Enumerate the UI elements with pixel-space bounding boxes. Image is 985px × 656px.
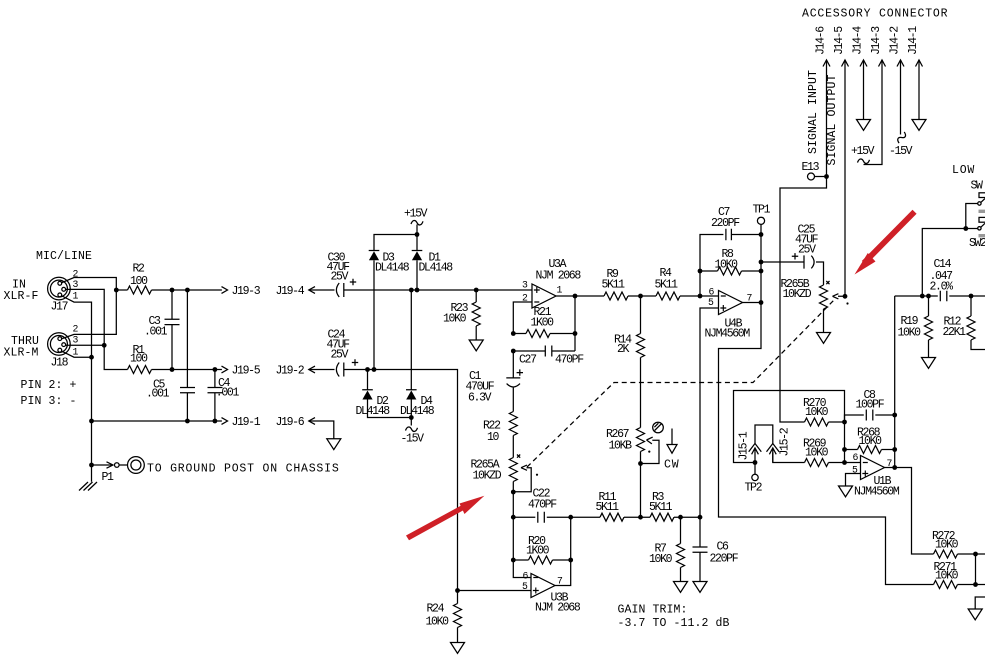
-15V tilde J14-2 xyxy=(896,131,907,143)
svg-text:J17: J17 xyxy=(51,301,68,314)
ground U1B pin5 xyxy=(839,486,853,497)
junction R12 top xyxy=(969,294,974,299)
svg-text:25V: 25V xyxy=(331,349,349,362)
junction R268 right xyxy=(892,447,897,452)
arrowhead J14-3 xyxy=(879,60,886,67)
test point TP2 xyxy=(754,463,756,475)
svg-text:SIGNAL INPUT: SIGNAL INPUT xyxy=(807,70,820,154)
wire C8/R268 node vertical xyxy=(894,296,896,468)
svg-text:10KZD: 10KZD xyxy=(473,470,502,483)
junction D4 top on J19-4 row xyxy=(409,288,414,293)
svg-text:10K0: 10K0 xyxy=(935,570,959,583)
junction U4B output xyxy=(759,300,764,305)
svg-text:470PF: 470PF xyxy=(528,499,557,512)
svg-text:J14-6: J14-6 xyxy=(815,26,828,55)
svg-text:100PF: 100PF xyxy=(856,399,885,412)
svg-text:5K11: 5K11 xyxy=(596,501,620,514)
wire U3B pin5 row xyxy=(458,590,532,592)
arrowhead J14-5 xyxy=(842,60,849,67)
junction J18 pin1 xyxy=(89,355,94,360)
svg-text:+15V: +15V xyxy=(404,208,428,221)
svg-text:J19-1: J19-1 xyxy=(232,416,261,429)
junction R270 right xyxy=(842,420,847,425)
svg-text:J19-6: J19-6 xyxy=(276,416,305,429)
diode D3 xyxy=(369,250,380,252)
connector J18 XLR male xyxy=(48,333,71,356)
svg-text:TO GROUND POST ON CHASSIS: TO GROUND POST ON CHASSIS xyxy=(147,463,340,476)
off-page arrow J14-4 xyxy=(857,120,871,131)
arrowhead J19-5 xyxy=(222,366,228,373)
svg-text:J15-1: J15-1 xyxy=(738,431,751,460)
svg-text:10K0: 10K0 xyxy=(426,616,450,629)
wire U4B pin5 to R3/R7 node xyxy=(700,308,719,517)
junction R265A bottom xyxy=(511,490,516,495)
junction R267 bottom xyxy=(638,461,643,466)
junction R4 right / U4B pin6 node xyxy=(698,294,703,299)
ground R265B xyxy=(817,333,831,344)
wire U3B output loop xyxy=(555,517,571,585)
svg-text:2K: 2K xyxy=(617,343,630,356)
svg-text:6.3V: 6.3V xyxy=(468,392,492,405)
off-page arrow J14-1 xyxy=(912,120,926,131)
ground R7 xyxy=(674,582,688,593)
svg-text:.001: .001 xyxy=(144,326,168,339)
svg-text:LOW: LOW xyxy=(952,164,975,177)
wire J14-2 to -15V xyxy=(900,60,902,135)
arrowhead J14-2 xyxy=(897,60,904,67)
chassis ground xyxy=(79,482,97,491)
svg-text:DL4148: DL4148 xyxy=(400,405,435,418)
junction C3 top xyxy=(170,288,175,293)
svg-text:XLR-M: XLR-M xyxy=(4,347,39,360)
wire U4B output feedback vertical and rail to R271 xyxy=(719,235,934,585)
svg-text:-15V: -15V xyxy=(401,433,425,446)
junction R268 left xyxy=(842,447,847,452)
junction R271 right xyxy=(973,582,978,587)
svg-text:10K0: 10K0 xyxy=(649,553,673,566)
wire R272-R271 tie xyxy=(975,554,977,585)
wire U1B feedback box to J15-1 xyxy=(734,391,845,463)
svg-text:10K0: 10K0 xyxy=(898,327,922,340)
svg-text:220PF: 220PF xyxy=(710,553,739,566)
junction P1 row xyxy=(89,463,94,468)
diode D1 xyxy=(412,250,423,252)
arrowhead J19-3 xyxy=(222,287,228,294)
svg-text:2.0%: 2.0% xyxy=(930,281,954,294)
R265B wiper to signal output xyxy=(833,294,846,299)
svg-text:J14-1: J14-1 xyxy=(907,26,920,55)
wire U1B output xyxy=(885,468,934,555)
junction R9/R4/R14 xyxy=(638,294,643,299)
junction C4 top xyxy=(213,367,218,372)
wire J14-6 signal input run down-left-down to R270 xyxy=(780,60,827,422)
svg-text:GAIN TRIM:: GAIN TRIM: xyxy=(618,604,688,617)
junction C22 right xyxy=(568,515,573,520)
wire C14 row xyxy=(895,291,985,301)
svg-text:5K11: 5K11 xyxy=(655,279,679,292)
junction C27 left xyxy=(511,349,516,354)
arrowhead J19-4 xyxy=(309,287,315,294)
arrowhead J14-4 xyxy=(860,60,867,67)
svg-text:XLR-F: XLR-F xyxy=(4,290,39,303)
op-amp U1B xyxy=(861,456,885,480)
wire J18 pin1 xyxy=(61,351,92,357)
ground J19-6 xyxy=(327,439,341,450)
junction D1 bottom on J19-4 row xyxy=(415,288,420,293)
wire J17 pin3 down to J18 pin3 and R1 xyxy=(66,289,128,369)
wire J14-1 stub xyxy=(918,60,920,120)
ground R23 xyxy=(469,340,483,351)
junction R23 top xyxy=(474,288,479,293)
junction U1B output xyxy=(892,465,897,470)
junction switch wire xyxy=(963,226,968,231)
svg-text:P1: P1 xyxy=(102,471,115,484)
junction -15V node xyxy=(409,415,414,420)
arrowhead J14-6 xyxy=(823,60,830,67)
op-amp U3B xyxy=(531,574,555,598)
wire J19-1 row xyxy=(92,420,222,422)
wire to output ground xyxy=(975,597,985,609)
diode D2 xyxy=(362,370,373,390)
wire U3A output xyxy=(556,296,575,351)
junction R21 right xyxy=(573,331,578,336)
wire U4B inverting node vertical xyxy=(700,235,723,297)
arrowhead J19-1 xyxy=(222,418,228,425)
wire R8/C7 node to C25 xyxy=(761,261,804,263)
junction E13 on signal input line xyxy=(824,174,829,179)
svg-text:C27: C27 xyxy=(519,354,536,367)
junction R21 left xyxy=(511,331,516,336)
arrowhead J14-1 xyxy=(916,60,923,67)
junction C22 left xyxy=(511,515,516,520)
svg-text:10K0: 10K0 xyxy=(805,447,829,460)
svg-text:NJM 2068: NJM 2068 xyxy=(536,270,582,283)
junction C3 bottom xyxy=(170,367,175,372)
screwdriver adjust symbol xyxy=(653,422,664,433)
junction R8 left xyxy=(698,269,703,274)
svg-text:NJM4560M: NJM4560M xyxy=(854,486,900,499)
svg-text:5K11: 5K11 xyxy=(602,279,626,292)
svg-text:TP1: TP1 xyxy=(753,204,771,217)
junction U3A output xyxy=(573,294,578,299)
junction R19 top xyxy=(926,294,931,299)
R265B CW end mark xyxy=(826,281,829,284)
svg-text:10: 10 xyxy=(487,431,500,444)
svg-text:PIN 3: -: PIN 3: - xyxy=(21,395,77,408)
svg-text:J19-5: J19-5 xyxy=(232,365,261,378)
junction R7 top xyxy=(678,515,683,520)
junction R11/R3/R267 xyxy=(638,515,643,520)
wire J18 pin2 up to R2 junction xyxy=(61,290,116,339)
svg-text:J14-3: J14-3 xyxy=(870,26,883,55)
svg-text:10KB: 10KB xyxy=(609,440,633,453)
-15V tilde xyxy=(406,427,418,431)
wire J19-6 to ground xyxy=(309,421,334,439)
ground R24 xyxy=(451,643,465,654)
svg-text:10K0: 10K0 xyxy=(805,406,829,419)
junction C4 bottom xyxy=(213,419,218,424)
junction C8 right xyxy=(892,413,897,418)
ground output xyxy=(968,609,982,620)
junction U1B pin6 node xyxy=(842,460,847,465)
svg-text:MIC/LINE: MIC/LINE xyxy=(36,250,92,263)
junction R20 right xyxy=(568,558,573,563)
wire J18 pin3 xyxy=(66,344,105,346)
svg-text:ACCESSORY CONNECTOR: ACCESSORY CONNECTOR xyxy=(802,8,948,21)
svg-text:5K11: 5K11 xyxy=(649,501,673,514)
junction R20 left xyxy=(511,558,516,563)
switch SW fragment xyxy=(922,229,977,297)
junction C5 bottom xyxy=(185,419,190,424)
svg-text:DL4148: DL4148 xyxy=(375,262,410,275)
svg-text:J19-2: J19-2 xyxy=(276,365,305,378)
svg-text:PIN 2: +: PIN 2: + xyxy=(21,379,77,392)
svg-text:SW2: SW2 xyxy=(969,237,985,250)
svg-text:25V: 25V xyxy=(331,271,349,284)
svg-text:+15V: +15V xyxy=(851,145,875,158)
svg-text:470PF: 470PF xyxy=(555,354,584,367)
dashed gang line R265A-R267-R265B xyxy=(527,299,835,467)
wire J14-3 to +15V xyxy=(864,60,883,165)
arrowhead J19-6 xyxy=(309,418,315,425)
wire U4B output xyxy=(743,302,762,304)
svg-text:J15-2: J15-2 xyxy=(779,427,792,456)
svg-text:TP2: TP2 xyxy=(745,482,763,495)
svg-text:100: 100 xyxy=(130,353,148,366)
svg-text:J19-3: J19-3 xyxy=(232,285,261,298)
svg-text:CW: CW xyxy=(664,459,679,472)
junction ground row at main vertical xyxy=(89,419,94,424)
junction C6 / U4B pin5 node xyxy=(698,515,703,520)
svg-text:R2: R2 xyxy=(133,263,146,276)
svg-text:NJM4560M: NJM4560M xyxy=(705,328,751,341)
R265A wiper xyxy=(513,465,531,492)
junction switch drop xyxy=(920,294,925,299)
svg-text:10K0: 10K0 xyxy=(443,313,467,326)
svg-text:J19-4: J19-4 xyxy=(276,285,305,298)
svg-text:DL4148: DL4148 xyxy=(356,405,391,418)
R267 wiper xyxy=(641,437,660,463)
junction C7 right xyxy=(759,232,764,237)
wire U3B feedback left vertical xyxy=(513,517,531,577)
junction wire to R265B xyxy=(759,260,764,265)
ground C6 xyxy=(693,582,707,593)
+15V tilde J14-3 xyxy=(858,159,870,163)
junction D3 bottom on J19-2 row xyxy=(372,367,377,372)
wire J17 pin2 to R2 junction xyxy=(61,278,116,291)
svg-text:J14-5: J14-5 xyxy=(833,26,846,55)
red annotation arrow 2 xyxy=(855,210,917,275)
svg-text:DL4148: DL4148 xyxy=(419,262,454,275)
wire U3A pin2 xyxy=(513,302,532,334)
svg-text:J18: J18 xyxy=(51,357,69,370)
arrowhead J19-2 xyxy=(309,366,315,373)
wire +15V rail xyxy=(374,225,417,251)
junction U3B pin5 / R24 xyxy=(455,588,460,593)
svg-text:22K1: 22K1 xyxy=(943,326,967,339)
svg-text:R24: R24 xyxy=(427,603,445,616)
op-amp U4B xyxy=(719,291,743,315)
terminal P1 eyelet xyxy=(115,463,120,468)
junction J18 pin3 xyxy=(102,343,107,348)
ground R19 xyxy=(922,358,936,369)
diode D4 xyxy=(406,290,417,390)
svg-text:J14-2: J14-2 xyxy=(889,26,902,55)
svg-text:SW: SW xyxy=(971,180,984,193)
junction +15V xyxy=(415,232,420,237)
junction J15-1 xyxy=(753,460,758,465)
junction R2 input xyxy=(114,288,119,293)
wire P1 arrow xyxy=(92,464,113,466)
wire J14-4 stub xyxy=(863,60,865,120)
junction C5 top xyxy=(185,288,190,293)
junction R8 right xyxy=(759,269,764,274)
wire J19-2 row to U3B + input xyxy=(344,370,458,591)
svg-text:J14-4: J14-4 xyxy=(852,26,865,55)
wire R270 node down to U1B pin6 xyxy=(844,422,846,463)
svg-text:220PF: 220PF xyxy=(711,217,740,230)
svg-text:10KZD: 10KZD xyxy=(783,288,812,301)
svg-text:25V: 25V xyxy=(798,244,816,257)
CW arrow xyxy=(671,429,673,445)
junction R265B wiper / J14-5 xyxy=(843,294,848,299)
op-amp U3A xyxy=(532,284,556,308)
red annotation arrow 1 xyxy=(406,496,484,540)
+15V tilde xyxy=(411,220,423,224)
R265A CW end mark xyxy=(517,455,520,458)
svg-text:E13: E13 xyxy=(802,161,820,174)
wire J17 pin1 ground run xyxy=(61,296,92,482)
junction R272 right xyxy=(973,552,978,557)
svg-text:10K0: 10K0 xyxy=(935,539,959,552)
svg-text:-3.7 TO -11.2 dB: -3.7 TO -11.2 dB xyxy=(618,617,730,630)
svg-text:10K0: 10K0 xyxy=(859,435,883,448)
svg-text:.001: .001 xyxy=(146,388,170,401)
wire U1B pin5 to ground xyxy=(846,474,861,487)
svg-text:-15V: -15V xyxy=(889,145,913,158)
junction D2 top on J19-2 row xyxy=(365,367,370,372)
svg-text:NJM 2068: NJM 2068 xyxy=(535,602,581,615)
connector J17 XLR female xyxy=(48,277,71,300)
wire J14-5 signal output run xyxy=(844,60,846,296)
svg-text:SIGNAL OUTPUT: SIGNAL OUTPUT xyxy=(826,74,839,165)
svg-text:1K00: 1K00 xyxy=(531,317,555,330)
